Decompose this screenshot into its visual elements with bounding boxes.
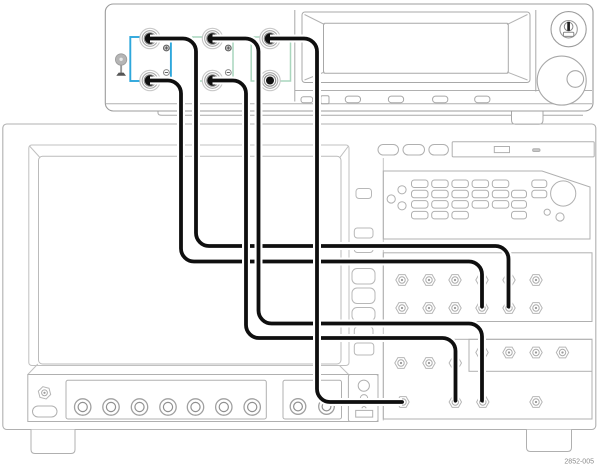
cable 1 casing [150, 39, 509, 307]
strip pill [33, 406, 58, 417]
lower connector panel [383, 339, 592, 419]
keypad small circles [544, 209, 550, 215]
green bracket 1 (channel pair 2) [193, 37, 233, 81]
generator knob [537, 56, 586, 105]
keypad buttons [412, 180, 547, 219]
connector C2+ [202, 28, 222, 48]
SMA connector upper panel row2 col3 [449, 303, 461, 314]
cable 1 core [150, 39, 509, 307]
generator right foot [512, 112, 544, 125]
cable 4 core [213, 81, 456, 401]
svg-text:2852-005: 2852-005 [564, 459, 594, 466]
generator divider line [294, 10, 296, 102]
SMA connector upper panel row2 col5 [503, 303, 515, 314]
trigger circles [358, 380, 369, 391]
SMA connector lower panel bottom row col1 [397, 397, 409, 408]
cable 2 casing [150, 81, 482, 307]
SMA connector sub-panel col4 [556, 347, 568, 358]
BNC input CH7 [244, 399, 260, 415]
SMA connector lower panel top row col3 [449, 358, 461, 369]
trigger caret [362, 406, 367, 409]
generator display screen [324, 23, 509, 73]
BNC input CH1 [75, 399, 91, 415]
SMA connector upper panel row2 col4 [476, 303, 488, 314]
generator button strip top line [295, 90, 592, 92]
generator display bezel outer [302, 12, 530, 83]
mid column buttons [352, 189, 375, 356]
connector C3- unused [260, 70, 280, 90]
BNC aux input 2 [319, 399, 335, 415]
BNC input CH4 [160, 399, 176, 415]
SMA connector upper panel row1 col3 [449, 275, 461, 286]
plus icon pair2 [225, 45, 231, 51]
BNC input CH5 [187, 399, 203, 415]
top pill button 2 [403, 145, 425, 156]
SMA connector upper panel row2 col1 [396, 303, 408, 314]
keypad knob [551, 181, 576, 206]
marker icon (lollipop) [115, 54, 126, 76]
connector C2- [202, 70, 222, 90]
BNC aux input 1 [290, 399, 306, 415]
top pill button 3 [429, 145, 449, 156]
bezel diagonal TL [30, 146, 40, 157]
BNC group2 box [283, 380, 342, 419]
keypad panel [383, 171, 590, 239]
blue bracket (channel pair 1) [130, 37, 171, 81]
power symbol [563, 22, 573, 37]
SMA connector sub-panel col3 [530, 347, 542, 358]
SMA connector lower panel top row col2 [423, 358, 435, 369]
screen bezel outer [29, 145, 349, 366]
mid strip divider [382, 158, 384, 421]
knob dimple [567, 71, 584, 88]
cable 3 casing [213, 39, 483, 401]
BNC group1 box [66, 380, 266, 419]
scope right foot [527, 430, 572, 452]
generator buttons row [301, 96, 490, 104]
SMA connector sub-panel col1 [476, 347, 488, 358]
generator base line [158, 112, 583, 116]
display bevel diagonals [305, 15, 528, 81]
power button U1 [551, 12, 586, 47]
SMA connector lower panel bottom row col2 [449, 397, 461, 408]
generator U1 body [105, 4, 593, 111]
SMA connector lower panel bottom row col4 [530, 397, 542, 408]
minus icon pair2 [225, 70, 231, 76]
DVD drive [452, 142, 594, 157]
screen inner [39, 156, 342, 364]
bezel diagonal BR [340, 366, 349, 375]
plus icon pair1 [164, 45, 170, 51]
generator power section divider [535, 10, 537, 92]
generator BNC connectors [140, 28, 280, 90]
cable 2 core [150, 81, 482, 307]
BNC input CH6 [216, 399, 232, 415]
SMA connector upper panel row1 col6 [530, 275, 542, 286]
generator panel line lower [106, 103, 592, 105]
bezel diagonal BL [28, 364, 38, 375]
cable 5 casing [270, 39, 402, 403]
minus icon pair1 [164, 70, 170, 76]
strip hex connector [38, 387, 50, 399]
upper connector panel [383, 253, 592, 322]
bezel diagonal TR [340, 146, 349, 157]
keypad circles [387, 186, 406, 210]
SMA connector sub-panel col2 [503, 347, 515, 358]
green bracket 2 (channel pair 3) [251, 37, 290, 81]
SMA connector upper panel row2 col2 [423, 303, 435, 314]
SMA connector upper panel row2 col6 [530, 303, 542, 314]
cable 3 core [213, 39, 483, 401]
SMA connector upper panel row1 col4 [476, 275, 488, 286]
oscilloscope body [3, 124, 596, 430]
lower sub panel [469, 339, 592, 371]
SMA connector upper panel row1 col5 [503, 275, 515, 286]
BNC input CH2 [103, 399, 119, 415]
connector C1+ [140, 28, 160, 48]
trigger rect [356, 410, 373, 417]
cable 5 core [270, 39, 402, 403]
cable 4 casing [213, 81, 456, 401]
scope left foot [31, 430, 75, 454]
SMA connector lower panel top row col1 [395, 358, 407, 369]
bottom strip [28, 375, 378, 422]
SMA connector upper panel row1 col2 [423, 275, 435, 286]
SMA connector upper panel row1 col1 [396, 275, 408, 286]
SMA connector lower panel bottom row col3 [477, 397, 489, 408]
trigger section box [348, 375, 378, 422]
top pill button 1 [378, 145, 399, 156]
connector C1- [140, 70, 160, 90]
connector C3+ [260, 28, 280, 48]
BNC input CH3 [131, 399, 147, 415]
